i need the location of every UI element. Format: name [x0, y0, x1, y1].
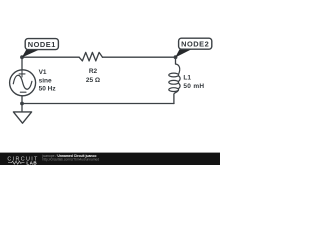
resistor R2	[79, 52, 102, 61]
voltage source V1	[10, 70, 36, 96]
wire top rail right segment	[103, 56, 176, 58]
V1 sine wave	[13, 75, 32, 89]
svg-text:L1: L1	[183, 74, 191, 81]
svg-text:sine: sine	[39, 77, 52, 84]
V1 plus sign	[19, 70, 25, 77]
inductor L1 top stub	[175, 57, 177, 64]
ground symbol	[13, 112, 31, 123]
svg-text:http://circuitlab.com/c/7bm4ud: http://circuitlab.com/c/7bm4ud/unnamed	[43, 158, 100, 162]
watermark bar	[0, 153, 220, 166]
wire top rail left segment	[22, 56, 79, 58]
svg-text:50 Hz: 50 Hz	[39, 86, 57, 93]
svg-text:R2: R2	[89, 68, 98, 75]
svg-text:50 mH: 50 mH	[183, 83, 204, 90]
svg-text:25 Ω: 25 Ω	[86, 77, 100, 84]
wire bottom rail	[22, 103, 174, 105]
ground stem	[21, 104, 23, 112]
wire source top	[21, 57, 23, 70]
svg-text:NODE2: NODE2	[181, 40, 209, 49]
wire source bottom	[21, 96, 23, 104]
node label NODE2	[175, 38, 212, 57]
svg-text:V1: V1	[39, 69, 47, 76]
V1 minus sign	[20, 91, 26, 93]
inductor L1 bottom stub	[174, 90, 178, 103]
node label NODE1	[22, 39, 59, 58]
junction node B (NODE2)	[174, 55, 178, 59]
junction ground node	[20, 102, 24, 106]
svg-text:NODE1: NODE1	[28, 40, 56, 49]
inductor L1 coil	[176, 64, 180, 74]
junction node A (NODE1)	[20, 55, 24, 59]
svg-text:LAB: LAB	[26, 160, 37, 165]
